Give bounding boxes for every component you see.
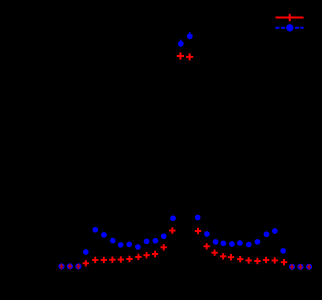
red plus data points near top center — [177, 52, 193, 60]
overlapping blue circle + dark red plus tail points — [58, 263, 312, 270]
legend entry 1: red solid line with plus marker — [276, 14, 304, 21]
legend entry 2: blue dashed line with circle marker — [276, 24, 304, 31]
red plus data series (right branch) — [195, 228, 287, 266]
red plus data series (left branch) — [83, 227, 176, 266]
blue circle data series (left branch) — [83, 215, 176, 255]
blue circle data points near top center with upper error stub — [178, 32, 193, 47]
blue circle data series (right branch) — [195, 215, 286, 254]
